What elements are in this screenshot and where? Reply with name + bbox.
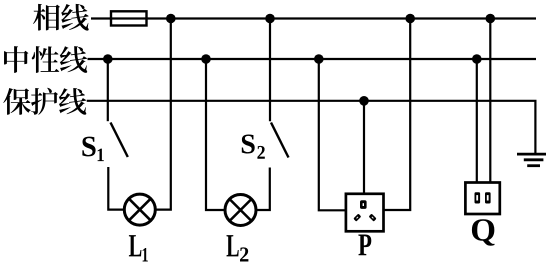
socket P body [346,194,384,232]
wire: live bus 相线 [91,17,536,19]
label 保护线 (protective wire) [3,88,86,115]
label Q [472,219,495,246]
fuse on live wire [111,11,147,25]
socket P earth slot [360,200,367,209]
label 相线 (live wire) [33,4,89,31]
node: neutral bus / socket Q branch junction [472,54,482,64]
node: live bus / L1 branch junction [166,14,176,24]
node: neutral bus / S1 branch junction [103,54,113,64]
label L1 [129,235,148,261]
lamp L1 [124,194,155,225]
socket Q left slot [475,192,481,203]
switch S2 blade [271,123,289,158]
socket P right slot [369,214,377,222]
ground symbol [517,154,546,166]
wire: socket P earth lead from protective bus [363,101,365,194]
node: live bus / S2 branch junction [265,14,275,24]
node: live bus / socket P branch junction [405,14,415,24]
wire: S1 lower lead down and right to lamp L1 [108,167,124,210]
wire: neutral bus 中性线 [88,58,537,60]
socket Q right slot [485,192,491,203]
label L2 [227,235,249,261]
wire: S2 branch from live bus down to switch top terminal [269,19,271,122]
wire: socket Q live lead [489,19,491,183]
switch S1 blade [111,123,128,158]
wire: S2 lower lead down and left to lamp L2 [256,168,270,211]
wire: socket Q neutral lead [476,59,478,183]
socket Q body [465,183,499,215]
label P [358,234,371,255]
wire: lamp L2 left lead from neutral bus [206,59,225,210]
node: neutral bus / L2 branch junction [201,54,211,64]
label S1 [82,137,103,162]
wire: socket P left lead from neutral bus [319,59,347,210]
node: live bus / socket Q branch junction [486,14,496,24]
wire: socket P right lead from live bus [384,19,411,211]
wire: lamp L1 right lead up to live bus [156,19,171,210]
wire: protective-earth bus 保护线 with corner down to ground [87,101,536,154]
wire: S1 branch from neutral node down to switch top terminal [107,59,109,121]
socket P left slot [353,214,361,222]
label S2 [242,134,265,158]
node: neutral bus / socket P branch junction [314,54,324,64]
lamp L2 [225,195,256,226]
label 中性线 (neutral wire) [4,46,87,73]
node: protective bus / socket P earth junction [359,96,369,106]
